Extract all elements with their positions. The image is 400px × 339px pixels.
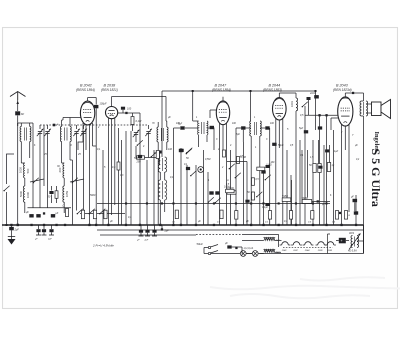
resistor row c3 (235, 211, 238, 220)
junction rail j11 (312, 202, 314, 204)
svg-text:-0,1,0,1A: -0,1,0,1A (244, 247, 254, 250)
junction rail j1 (146, 202, 148, 204)
capacitor AVC 2 (215, 191, 219, 194)
resistor mid r4 (252, 178, 255, 186)
wire V2 pins (108, 118, 110, 225)
capacitor mid d (261, 170, 265, 173)
tube V1 B2042 (80, 101, 94, 125)
wire vertical v23 (282, 155, 284, 225)
wire V3 pins (219, 124, 221, 161)
junction bus j19 (278, 224, 280, 226)
capacitor 5uF right (304, 130, 308, 133)
wire vertical v27 (299, 140, 301, 225)
wire vertical r6 (329, 145, 331, 163)
capacitor 2uF row2 (36, 214, 40, 217)
svg-text:μF: μF (197, 220, 201, 223)
capacitor 22nF (314, 95, 319, 98)
resistor 250 osc (137, 156, 145, 159)
resistor ohm box (65, 209, 68, 217)
svg-text:2043: 2043 (326, 249, 332, 252)
junction rail j9 (278, 202, 280, 204)
wire vertical v21 (269, 150, 271, 225)
svg-text:500: 500 (134, 157, 139, 160)
svg-text:B 2038: B 2038 (104, 84, 117, 88)
junction bus j13 (180, 224, 182, 226)
capacitor antenna series (15, 111, 20, 115)
coil L2a (63, 163, 64, 178)
capacitor T6 right (265, 126, 269, 129)
wire link mid a (227, 161, 247, 163)
junction rail j5 (213, 202, 215, 204)
svg-text:250: 250 (136, 161, 142, 164)
wire vertical v17 (246, 170, 248, 225)
wire vertical v7 (153, 150, 155, 225)
junction V2 grid (125, 112, 127, 114)
wire power box divider (327, 234, 329, 254)
switch left return (4, 186, 9, 191)
resistor row b3 (104, 210, 107, 219)
wire vertical v24 (286, 150, 288, 225)
wire rail B+ main (97, 203, 330, 205)
capacitor below mid3 (154, 225, 156, 230)
wire V1 pin bends (78, 142, 83, 150)
switch mid c (230, 164, 235, 169)
transformer mains (351, 236, 353, 248)
resistor 1M r (327, 163, 330, 172)
resistor row c7 (335, 211, 338, 220)
resistor row b2 (93, 210, 96, 219)
svg-text:0,5M: 0,5M (205, 158, 210, 161)
capacitor below b2 (43, 225, 45, 229)
switch row b2 (90, 209, 95, 214)
transformer T7 output (360, 101, 362, 116)
switch mid a (187, 148, 192, 153)
svg-text:2047: 2047 (292, 249, 298, 252)
wire switch link (30, 179, 44, 182)
resistor 0.5M (117, 162, 120, 170)
junction det b (325, 114, 327, 116)
tube V2 B2038 (106, 107, 118, 119)
junction bus j1 (17, 224, 19, 226)
svg-text:A: A (226, 179, 229, 182)
wire rail heater3 (242, 234, 279, 236)
switch row b1 (78, 209, 83, 214)
capacitor below mid2 (147, 225, 149, 230)
wire power box right (363, 225, 365, 254)
junction bus j0 (10, 224, 12, 226)
junction left return (6, 224, 8, 226)
svg-text:μF: μF (354, 144, 358, 147)
junction rail j0 (125, 202, 127, 204)
junction mains (235, 247, 237, 249)
resistor 0.1M V2 (131, 117, 134, 125)
wire heater chain (283, 247, 333, 249)
svg-text:S 5 G Ultra: S 5 G Ultra (369, 149, 383, 207)
wire vertical v28 (304, 130, 306, 225)
capacitor below mid1 (140, 225, 142, 230)
junction bus j3 (43, 224, 45, 226)
box V18 (282, 198, 291, 202)
wire det block (315, 95, 317, 99)
junction bus j11 (159, 224, 161, 226)
switch mid b (191, 171, 196, 176)
wire vertical v15 (230, 150, 232, 225)
svg-text:2μF: 2μF (47, 239, 52, 241)
resistor row c1 (175, 210, 178, 219)
junction bus j17 (250, 224, 252, 226)
svg-text:50Hz: 50Hz (197, 242, 204, 246)
resistor row c6 (311, 211, 314, 220)
capacitor right d (325, 149, 329, 152)
wire vertical v34 (355, 195, 357, 225)
capacitor right b (318, 126, 322, 129)
junction bus j18 (262, 224, 264, 226)
wire vertical v12 (207, 172, 209, 225)
junction V5k (339, 212, 341, 214)
svg-text:2 Fr=U 4,5Volle: 2 Fr=U 4,5Volle (92, 244, 114, 248)
svg-text:μF: μF (55, 212, 59, 215)
junction bus j15 (213, 224, 215, 226)
junction bus j7 (95, 224, 97, 226)
wire det out horiz (305, 114, 338, 116)
tube V5 B2043 (338, 97, 353, 126)
svg-text:100μF: 100μF (100, 103, 108, 106)
coil L2b (63, 186, 64, 202)
wire osc vert a (180, 148, 182, 225)
coil L1a (24, 163, 25, 178)
svg-text:B 2044: B 2044 (269, 84, 281, 88)
junction rail j10 (295, 202, 297, 204)
wire left return (6, 192, 8, 225)
svg-text:5000: 5000 (90, 194, 96, 197)
capacitor row3 (51, 214, 55, 217)
svg-text:2μF: 2μF (144, 240, 149, 242)
svg-text:(RENS 1894): (RENS 1894) (76, 88, 95, 92)
junction bus j16 (235, 224, 237, 226)
trimmer C2 (45, 131, 49, 133)
wire vertical v18 (250, 150, 252, 225)
switch mid e (257, 192, 262, 197)
junction toprail 0 (192, 90, 194, 92)
wire T6 wiring (246, 127, 252, 129)
wire vertical v5 (139, 122, 141, 225)
switch AVC 1 (209, 197, 214, 202)
resistor row b1 (81, 210, 84, 219)
junction toprail 2 (315, 90, 317, 92)
resistor mid r3 (252, 192, 255, 200)
wire bus main (2, 224, 364, 226)
capacitor +Ea (339, 238, 346, 244)
tube V4 B2044 (273, 98, 287, 120)
tube V3 B2047 (216, 101, 229, 125)
wire vertical r5 (323, 145, 325, 225)
wire vertical r2 (301, 150, 303, 204)
capacitor T6 left (241, 126, 245, 129)
junction bus j14 (195, 224, 197, 226)
switch mid d (266, 175, 271, 180)
switch S1a (34, 178, 39, 183)
coil L1b (23, 186, 24, 202)
wire T7 (362, 100, 364, 102)
resistor barretter 2 (264, 250, 275, 253)
transformer T6 IF-2 (250, 121, 251, 136)
svg-text:B 2047: B 2047 (215, 84, 228, 88)
switch osc2 (187, 149, 192, 154)
svg-text:2038: 2038 (317, 250, 323, 252)
resistor barretter 1 (264, 238, 275, 241)
svg-text:(RENS 1854): (RENS 1854) (212, 88, 231, 92)
wire vertical v2 (121, 140, 123, 225)
wire V4 top link (279, 92, 296, 94)
capacitor AVC 1 (209, 191, 213, 194)
svg-text:1001: 1001 (290, 101, 294, 107)
switch osc (138, 140, 143, 145)
capacitor 2uF row1 (29, 214, 33, 217)
heater tube 2044 (305, 242, 312, 245)
capacitor mid f (265, 203, 269, 206)
svg-text:1059: 1059 (65, 190, 69, 197)
resistor row c2 (220, 210, 223, 219)
resistor row c4 (268, 211, 271, 220)
wire osc mid (135, 146, 137, 158)
switch mid f (236, 173, 241, 178)
wire top rail drop IF2 (250, 91, 252, 120)
wire rail heater2 (100, 234, 196, 236)
capacitor 5uF mains (227, 245, 231, 248)
wire vertical v22 (275, 160, 277, 225)
capacitor 50uF det (272, 143, 276, 146)
capacitor mid e (245, 200, 249, 203)
wire rail B+ left2 (80, 213, 125, 215)
wire osc vert b (192, 127, 194, 129)
svg-text:μF: μF (245, 220, 249, 223)
junction bus j6 (88, 224, 90, 226)
svg-text:5μF: 5μF (299, 127, 304, 130)
wire vertical r4 (318, 140, 320, 164)
switch det (303, 102, 308, 107)
wire V1 grid (63, 117, 81, 119)
switch S1b (73, 178, 78, 183)
capacitor 500 mid (138, 155, 142, 158)
wire T1 legs (20, 142, 22, 164)
heater tube 2047 (293, 242, 300, 245)
wire V1 anode top (87, 98, 89, 102)
svg-text:(RENS 1853): (RENS 1853) (263, 88, 282, 92)
wire tuning gang (dashed) (40, 124, 148, 126)
wire V2 top loop (111, 97, 113, 107)
svg-text:100: 100 (168, 148, 173, 151)
wire T3 wiring (185, 127, 198, 129)
wire vertical v0 (102, 150, 104, 225)
wire vertical v14 (226, 155, 228, 225)
resistor mid r1 (223, 150, 226, 157)
wire V5 pins (341, 124, 343, 160)
capacitor osc d (179, 149, 183, 152)
wire V5 top (344, 93, 346, 97)
wire rail heater2 dashed (196, 234, 242, 236)
antenna (10, 92, 26, 97)
resistor L14 box (257, 167, 265, 170)
junction VR (317, 200, 319, 202)
wire grid drop (139, 113, 141, 122)
wire vertical v32 (333, 130, 335, 225)
transformer T1 antenna coil (20, 127, 21, 142)
svg-text:μF: μF (25, 211, 29, 214)
trimmer osc A (134, 132, 138, 134)
wire V2 grid right (118, 112, 140, 114)
resistor mid r2 (237, 157, 240, 164)
resistor row c5 (289, 211, 292, 220)
capacitor below b1 (38, 225, 40, 229)
junction bus j4 (55, 224, 57, 226)
wire left vert b (43, 125, 45, 186)
trimmer osc B (146, 131, 150, 133)
wire L2 stack (63, 178, 65, 186)
wire rail lamps (208, 253, 364, 255)
wire top rail 2 (162, 90, 316, 92)
trimmer C1 (38, 131, 42, 133)
wire vertical v4 (130, 131, 132, 225)
wire top rail drop out (315, 91, 317, 95)
wire vertical v1 (118, 128, 120, 225)
junction rail j12 (325, 202, 327, 204)
lamp dial 1 (240, 251, 246, 257)
svg-text:5μF: 5μF (236, 134, 241, 136)
wire trafo out (357, 240, 364, 242)
capacitor 50 mid-left (49, 191, 53, 194)
wire vertical v25 (290, 175, 292, 225)
junction gang link (53, 124, 56, 127)
svg-text:B 2042: B 2042 (80, 84, 92, 88)
resistor 50 r (313, 164, 316, 173)
svg-text:μF: μF (224, 242, 228, 245)
trimmer C4 (81, 131, 85, 133)
wire mast down (17, 123, 19, 225)
svg-text:22nF: 22nF (309, 92, 316, 95)
svg-text:+: + (341, 239, 343, 243)
svg-text:0,1Mo: 0,1Mo (224, 187, 231, 189)
resistor 10000 (227, 191, 236, 194)
coil 1001 choke (296, 98, 298, 111)
svg-text:4Ω 0,5A: 4Ω 0,5A (348, 250, 357, 253)
transformer T5 IF-1 (158, 157, 160, 172)
wire vertical v9 (186, 165, 188, 225)
wire vertical r1 (291, 180, 293, 225)
capacitor 0.1uF mid (186, 167, 190, 170)
junction bus j5 (64, 224, 66, 226)
transformer T4 bandfilter (157, 127, 158, 142)
capacitor below b3 (51, 225, 53, 229)
capacitor T3 left (180, 126, 184, 129)
wire T4 legs (157, 122, 159, 127)
junction bus j24 (355, 224, 357, 226)
wire vertical v33 (341, 160, 343, 225)
svg-text:1μF: 1μF (334, 150, 339, 153)
transformer T3 osc (197, 121, 200, 135)
wire vertical v3 (125, 131, 127, 225)
capacitor row c9 (354, 211, 358, 214)
svg-text:0,1M: 0,1M (136, 119, 143, 123)
resistor box 0,1Mo (226, 189, 235, 192)
wire vertical r3 (307, 150, 309, 198)
wire trimmer drops 2 (76, 134, 78, 211)
resistor VR box (302, 200, 312, 204)
wire left vert a (32, 123, 34, 208)
capacitor V1 anode (94, 105, 98, 108)
svg-text:50μF: 50μF (278, 144, 284, 147)
resistor row c8 (344, 211, 347, 220)
junction bus j2 (30, 224, 32, 226)
svg-text:μF: μF (167, 116, 171, 119)
svg-text:2μF: 2μF (14, 229, 20, 232)
capacitor mid g (266, 165, 270, 168)
capacitor 2uF out (9, 227, 14, 230)
wire vertical v29 (312, 140, 314, 225)
wire top rail drop left (161, 91, 163, 157)
junction toprail 1 (250, 90, 252, 92)
wire V1 pins (82, 123, 84, 142)
wire vertical v30 (319, 115, 321, 225)
jack phono (198, 167, 204, 173)
wire left vert d (70, 159, 72, 161)
switch mains a (208, 246, 210, 248)
resistor lower-left (55, 191, 58, 199)
heater tube 2043 (327, 242, 334, 245)
wire heater baseline (260, 253, 264, 255)
junction rail j6 (235, 202, 237, 204)
wire rail heater1 (97, 229, 364, 231)
wire trimmer drops 1 (39, 134, 41, 208)
capacitor right e (318, 166, 322, 169)
svg-text:2042: 2042 (281, 249, 287, 252)
capacitor mid a (179, 149, 183, 152)
svg-text:μF: μF (109, 220, 113, 223)
capacitor osc 100 (158, 151, 162, 154)
svg-text:(REN 1823d): (REN 1823d) (333, 88, 352, 92)
capacitor right c (353, 199, 358, 202)
wire vertical v8 (157, 150, 159, 225)
svg-text:1000: 1000 (26, 191, 30, 198)
svg-text:2044: 2044 (304, 249, 310, 252)
resistor 5k r (318, 164, 321, 173)
switch mains b (208, 252, 210, 254)
wire T5 link (159, 172, 161, 180)
junction bus j23 (340, 224, 342, 226)
svg-text:0,1μF: 0,1μF (262, 207, 268, 209)
junction rail j3 (172, 202, 174, 204)
svg-text:6F: 6F (21, 112, 24, 116)
wire left vert c (71, 160, 73, 225)
wire screen vert (95, 108, 97, 225)
svg-text:μF: μF (350, 196, 354, 199)
trimmer C3 (74, 131, 78, 133)
junction below 1 (161, 228, 163, 230)
wire L1 stack (24, 178, 26, 186)
junction det a (318, 114, 320, 116)
junction rail j2 (161, 202, 163, 204)
capacitor grid 100 (121, 107, 125, 110)
wire vertical v11 (203, 150, 205, 225)
junction bus j21 (312, 224, 314, 226)
switch AVC 2 (216, 198, 221, 203)
transformer T5 IF-1 lower (158, 180, 160, 200)
junction rail j8 (262, 202, 264, 204)
wire vertical v20 (263, 170, 265, 225)
junction rail j4 (195, 202, 197, 204)
svg-text:(REN 1821): (REN 1821) (101, 88, 118, 92)
transformer T2 RF coil (60, 127, 61, 142)
wire V4 pins (275, 119, 277, 160)
